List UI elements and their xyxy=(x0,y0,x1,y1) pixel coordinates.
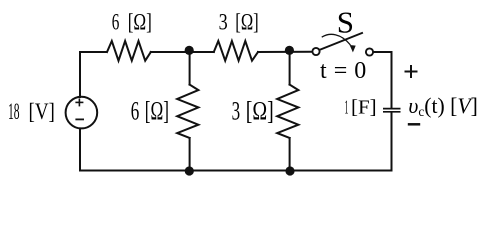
svg-text:3: 3 xyxy=(232,96,241,126)
capacitor C1 plates xyxy=(383,109,401,112)
svg-text:t = 0: t = 0 xyxy=(320,58,366,84)
svg-text:6: 6 xyxy=(131,96,140,126)
resistor R2 3 ohm horizontal xyxy=(214,41,258,61)
wire node A down to R3 xyxy=(189,52,191,85)
svg-text:18: 18 xyxy=(8,99,20,124)
capacitor plus polarity xyxy=(405,65,418,78)
switch arrowhead xyxy=(350,45,356,52)
svg-text:[Ω]: [Ω] xyxy=(246,96,274,126)
svg-text:6: 6 xyxy=(112,9,120,34)
node D dot xyxy=(285,166,294,175)
wire R3 to bottom xyxy=(189,138,191,171)
resistor R3 6 ohm vertical xyxy=(177,85,198,138)
wire top left lead xyxy=(80,51,106,53)
switch closing arrow arc xyxy=(322,34,350,44)
svg-text:[Ω]: [Ω] xyxy=(145,96,169,126)
wire R2 to switch xyxy=(258,51,312,53)
svg-text:[F]: [F] xyxy=(351,97,377,119)
switch terminal left xyxy=(312,48,319,55)
switch S blade xyxy=(321,33,363,50)
voltage source minus sign xyxy=(75,118,84,120)
resistor R4 3 ohm vertical xyxy=(277,85,298,138)
svg-text:3: 3 xyxy=(219,9,228,34)
wire between R1 and R2 xyxy=(151,51,214,53)
wire switch to right corner xyxy=(374,52,392,108)
svg-text:[V]: [V] xyxy=(29,99,55,124)
wire node B down to R4 xyxy=(289,52,291,85)
node B dot xyxy=(285,46,294,55)
svg-text:[Ω]: [Ω] xyxy=(128,9,152,34)
resistor R1 6 ohm horizontal xyxy=(107,41,151,61)
wire left vertical top xyxy=(79,52,81,97)
svg-text:1: 1 xyxy=(345,97,349,119)
svg-text:[Ω]: [Ω] xyxy=(235,9,258,34)
node A dot xyxy=(185,46,194,55)
node C dot xyxy=(185,166,194,175)
wire below capacitor xyxy=(391,113,393,171)
wire R4 to bottom xyxy=(289,138,291,171)
voltage source V1 circle xyxy=(66,97,98,129)
capacitor minus polarity xyxy=(408,123,420,126)
wire bottom xyxy=(80,170,392,172)
voltage source plus sign xyxy=(75,98,83,106)
switch terminal right xyxy=(366,48,373,55)
svg-text:S: S xyxy=(337,4,354,39)
wire left vertical bottom xyxy=(79,129,81,171)
